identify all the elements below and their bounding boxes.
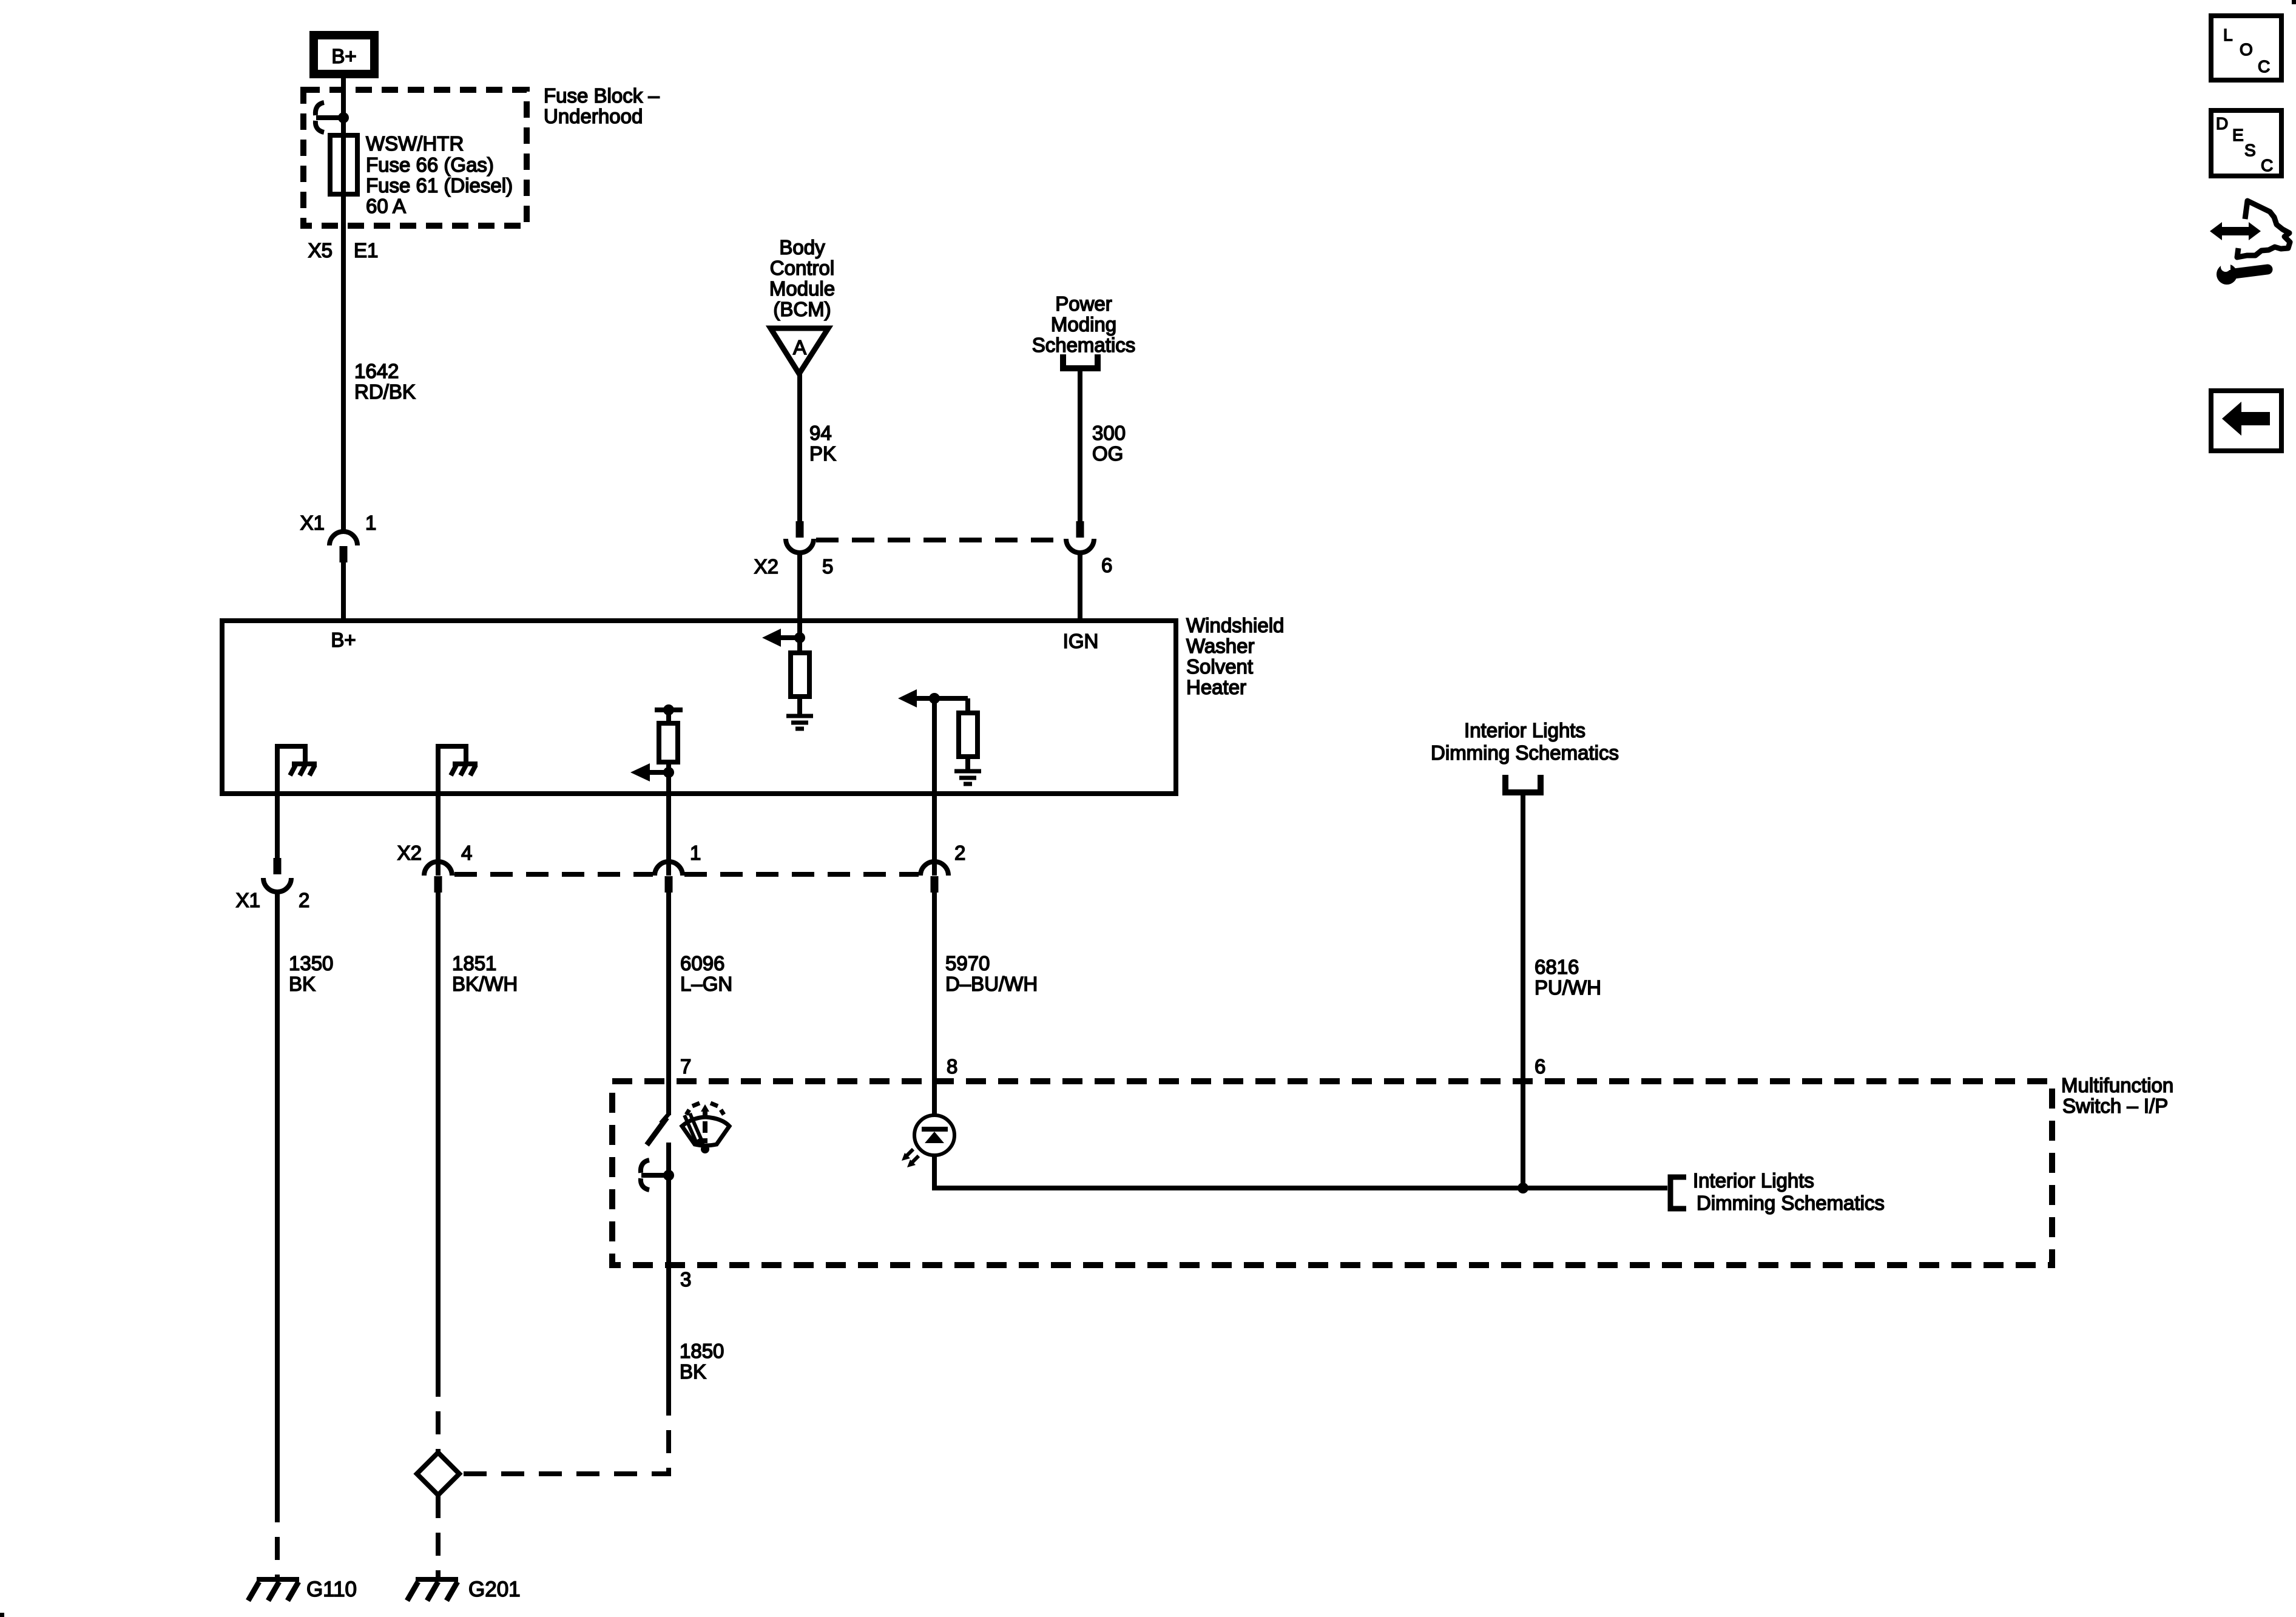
wire splice to G201 [436, 1495, 441, 1577]
svg-text:L–GN: L–GN [680, 973, 732, 995]
label Body Control Module (BCM) [769, 236, 835, 320]
wire 6096 L-GN to switch [666, 893, 671, 1115]
label X5 E1 fuse block pins [308, 239, 379, 262]
svg-text:E: E [2232, 126, 2244, 144]
svg-text:3: 3 [680, 1268, 691, 1291]
svg-text:X5: X5 [308, 239, 333, 262]
svg-text:Interior Lights: Interior Lights [1464, 719, 1585, 741]
svg-text:Dimming Schematics: Dimming Schematics [1697, 1192, 1885, 1214]
svg-text:4: 4 [461, 842, 472, 864]
svg-text:1851: 1851 [452, 952, 496, 974]
dashed harness tie connector 5 to 6 [816, 538, 1064, 542]
svg-text:Dimming Schematics: Dimming Schematics [1431, 741, 1619, 764]
bus tap symbol at switch output [641, 1160, 674, 1190]
label X2 5 [754, 555, 834, 578]
icon LOC box [2211, 16, 2281, 80]
component box Windshield Washer Solvent Heater [222, 621, 1176, 794]
fuse WSW/HTR Fuse 66 (Gas) / Fuse 61 (Diesel) 60 A [330, 135, 357, 194]
svg-text:60 A: 60 A [366, 195, 406, 217]
power symbol B+ battery feed box [314, 35, 374, 74]
svg-text:BK: BK [289, 973, 316, 995]
svg-text:B+: B+ [331, 45, 356, 67]
icon DESC box [2211, 110, 2281, 176]
svg-text:5970: 5970 [945, 952, 990, 974]
svg-text:Multifunction: Multifunction [2061, 1074, 2173, 1096]
ground G201 [407, 1578, 521, 1601]
wire B+ box to fuse [341, 78, 346, 135]
svg-text:7: 7 [680, 1055, 691, 1078]
svg-text:Solvent: Solvent [1186, 655, 1253, 678]
svg-text:Power: Power [1055, 292, 1112, 315]
svg-text:C: C [2258, 57, 2270, 76]
internal sense branch above pin 2: arrow, resistor, signal ground [898, 689, 981, 794]
label 5970 D-BU/WH [945, 952, 1038, 995]
washer spray icon [682, 1103, 729, 1153]
wire LED to interior lights bracket (junction) [0, 0, 1, 1]
label 94 PK [809, 422, 836, 465]
svg-text:OG: OG [1092, 442, 1123, 465]
svg-text:A: A [793, 336, 806, 359]
svg-text:G201: G201 [468, 1578, 521, 1601]
svg-text:2: 2 [299, 889, 309, 911]
wire 1350 BK to G110 [275, 892, 280, 1499]
svg-text:G110: G110 [306, 1578, 357, 1601]
svg-text:Heater: Heater [1186, 676, 1246, 698]
connector pin 1 [655, 862, 683, 893]
label 1850 BK [680, 1340, 724, 1383]
svg-text:S: S [2244, 141, 2256, 160]
label Multifunction Switch - I/P [2061, 1074, 2173, 1117]
svg-text:1350: 1350 [289, 952, 333, 974]
icon back arrow box [2211, 391, 2281, 451]
svg-text:Fuse 61 (Diesel): Fuse 61 (Diesel) [366, 174, 513, 197]
svg-text:6: 6 [1535, 1055, 1545, 1078]
wire 1850 BK from switch [666, 1265, 671, 1393]
page corner mark bottom left [0, 1613, 4, 1617]
label X2 4 [397, 842, 473, 864]
svg-text:X1: X1 [236, 889, 260, 911]
svg-text:BK: BK [680, 1360, 706, 1383]
ground G110 [248, 1578, 357, 1601]
LED indicator in multifunction switch [902, 1115, 1667, 1188]
label 6816 PU/WH [1535, 956, 1601, 999]
svg-text:B+: B+ [331, 629, 356, 651]
connector X1 pin 2 [263, 858, 291, 892]
svg-text:5: 5 [822, 555, 833, 578]
label 1350 BK [289, 952, 333, 995]
svg-text:300: 300 [1092, 422, 1126, 444]
connector X2 pin 5 [786, 521, 814, 553]
junction dot fuse input [338, 112, 349, 123]
wire fuse to connector X1-1 [341, 194, 346, 531]
off-page bracket Interior Lights right [1670, 1177, 1686, 1209]
svg-text:Body: Body [779, 236, 825, 258]
svg-text:O: O [2240, 40, 2253, 59]
op-amp style triangle A BCM output [771, 328, 828, 374]
label 300 OG [1092, 422, 1126, 465]
label Interior Lights Dimming Schematics (right) [1693, 1169, 1885, 1214]
svg-text:WSW/HTR: WSW/HTR [366, 132, 464, 155]
svg-text:Control: Control [770, 257, 834, 279]
connector X2 pin 4 [424, 862, 452, 893]
wire heater to connector 1 [666, 794, 671, 876]
svg-text:Module: Module [769, 277, 835, 300]
svg-text:Switch – I/P: Switch – I/P [2062, 1095, 2168, 1117]
svg-text:Fuse 66 (Gas): Fuse 66 (Gas) [366, 154, 494, 176]
label X1 2 [236, 889, 310, 911]
wire heater to connector X2-4 [436, 794, 441, 876]
svg-text:Moding: Moding [1051, 313, 1116, 336]
label Fuse Block - Underhood [544, 84, 660, 127]
svg-text:1: 1 [365, 511, 376, 534]
wire 300 OG [1078, 371, 1082, 522]
svg-text:(BCM): (BCM) [773, 298, 831, 320]
wire 94 PK [797, 374, 802, 522]
svg-text:6: 6 [1101, 554, 1112, 576]
wire connector 6 to heater IGN [1078, 552, 1082, 621]
svg-text:L: L [2223, 25, 2233, 44]
multifunction switch dashed outline [612, 1081, 2052, 1265]
wire 5970 D-BU/WH to LED [932, 893, 937, 1115]
svg-text:2: 2 [954, 842, 965, 864]
off-page bracket Interior Lights top [1505, 775, 1541, 792]
dashed harness tie connectors 4-1-2 [454, 872, 653, 877]
svg-text:1642: 1642 [354, 360, 399, 382]
page corner mark top right [2292, 0, 2296, 4]
internal control branch under pin 5: arrow, resistor, signal ground [762, 621, 813, 729]
label 1851 BK/WH [452, 952, 518, 995]
svg-text:94: 94 [809, 422, 832, 444]
svg-text:X2: X2 [397, 842, 422, 864]
svg-text:6096: 6096 [680, 952, 724, 974]
label 1642 RD/BK [354, 360, 416, 403]
svg-text:1: 1 [690, 842, 701, 864]
internal ground hook 2 inside heater [438, 746, 478, 794]
svg-text:RD/BK: RD/BK [354, 380, 416, 403]
icon harness routing double arrow [2210, 222, 2261, 240]
svg-text:1850: 1850 [680, 1340, 724, 1362]
off-page bracket Power Moding [1063, 354, 1098, 368]
svg-text:X2: X2 [754, 555, 778, 578]
junction dot 6816 to LED return [1518, 1183, 1528, 1193]
label Windshield Washer Solvent Heater [1186, 614, 1284, 698]
label 6096 L-GN [680, 952, 732, 995]
svg-text:BK/WH: BK/WH [452, 973, 518, 995]
svg-text:C: C [2261, 156, 2273, 175]
svg-text:Fuse Block –: Fuse Block – [544, 84, 660, 107]
wire heater to connector X1-2 [275, 794, 280, 859]
svg-text:Windshield: Windshield [1186, 614, 1284, 636]
label X1 1 [300, 511, 377, 534]
svg-text:8: 8 [947, 1055, 957, 1078]
fuse block dashed outline Fuse Block - Underhood [303, 90, 527, 226]
connector pin 6 [1066, 521, 1094, 553]
icon wrench [2217, 260, 2267, 285]
splice diamond [417, 1453, 459, 1495]
svg-text:PK: PK [809, 442, 836, 465]
label Interior Lights Dimming Schematics (top right) [1431, 719, 1619, 764]
washer switch contact and blade [647, 1114, 669, 1265]
internal ground hook 1 inside heater [277, 746, 317, 794]
wire 6816 PU/WH [1521, 795, 1525, 1188]
connector X1 pin 1 [329, 532, 357, 562]
svg-text:6816: 6816 [1535, 956, 1579, 978]
icon harness hood outline [2237, 201, 2290, 257]
svg-text:X1: X1 [300, 511, 325, 534]
bus tap symbol at fuse input [316, 103, 343, 132]
wire connector 5 to heater [797, 552, 802, 621]
svg-text:Schematics: Schematics [1032, 334, 1136, 356]
svg-text:D: D [2216, 114, 2228, 133]
connector pin 2 [920, 862, 948, 893]
internal sense branch above pin 1: bar, resistor, arrow [630, 704, 683, 794]
svg-text:IGN: IGN [1063, 630, 1099, 652]
svg-text:D–BU/WH: D–BU/WH [945, 973, 1038, 995]
label fuse WSW/HTR [366, 132, 513, 217]
label Power Moding Schematics [1032, 292, 1136, 356]
svg-text:PU/WH: PU/WH [1535, 976, 1601, 999]
svg-text:Washer: Washer [1186, 635, 1254, 657]
wire 1851 BK/WH to splice [436, 893, 441, 1374]
svg-text:Underhood: Underhood [544, 105, 643, 127]
svg-text:E1: E1 [354, 239, 378, 262]
wire 1642 RD/BK [341, 562, 346, 621]
svg-text:Interior Lights: Interior Lights [1693, 1169, 1814, 1192]
wire heater to connector 2 [932, 794, 937, 876]
